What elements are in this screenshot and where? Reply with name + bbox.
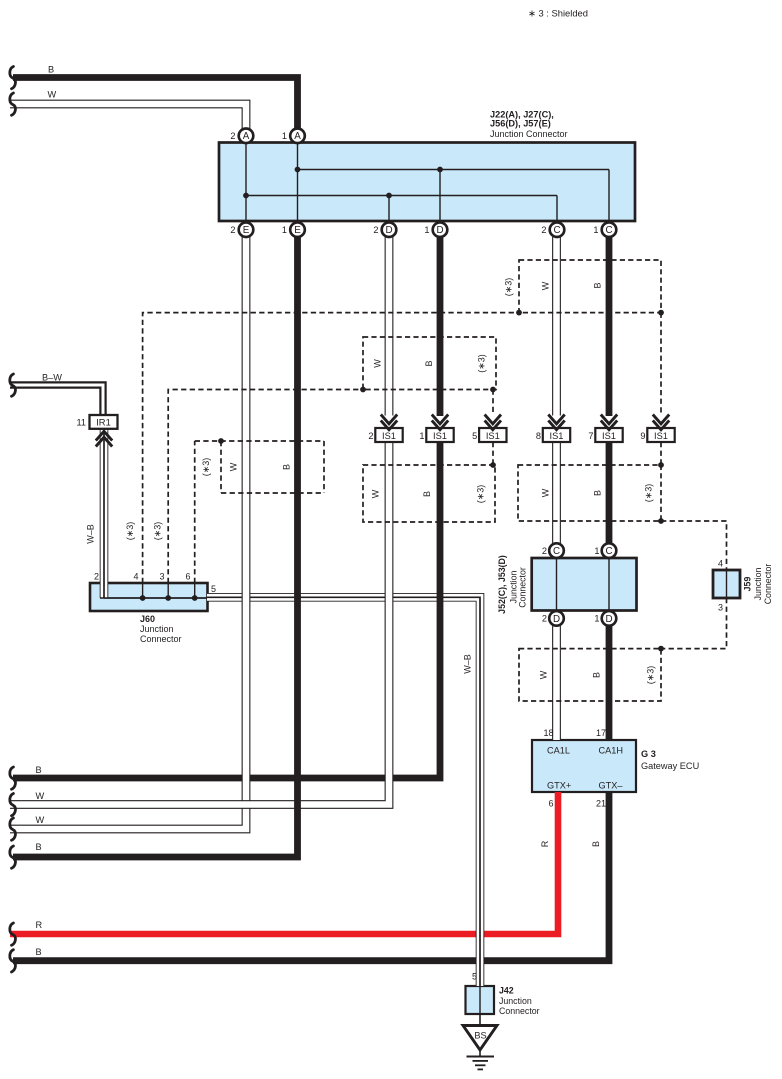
svg-text:Junction: Junction — [140, 624, 174, 634]
svg-text:(∗3): (∗3) — [201, 458, 211, 477]
svg-text:17: 17 — [596, 728, 606, 738]
svg-text:CA1L: CA1L — [547, 746, 570, 756]
svg-text:3: 3 — [159, 572, 164, 582]
svg-text:2: 2 — [542, 614, 547, 624]
svg-text:A: A — [294, 131, 301, 142]
svg-text:GTX–: GTX– — [599, 781, 624, 791]
svg-text:BS: BS — [474, 1031, 486, 1041]
svg-text:7: 7 — [588, 431, 593, 441]
svg-text:D: D — [605, 614, 612, 625]
svg-text:W: W — [541, 281, 551, 290]
svg-text:18: 18 — [543, 728, 553, 738]
svg-text:W: W — [371, 489, 381, 498]
svg-text:R: R — [36, 920, 43, 930]
svg-text:IS1: IS1 — [550, 431, 564, 441]
svg-text:(∗3): (∗3) — [646, 666, 656, 685]
svg-text:5: 5 — [472, 431, 477, 441]
svg-text:C: C — [553, 546, 560, 557]
svg-text:GTX+: GTX+ — [547, 781, 571, 791]
svg-text:E: E — [243, 225, 250, 236]
svg-text:Gateway ECU: Gateway ECU — [641, 761, 699, 771]
svg-text:3: 3 — [718, 603, 723, 613]
svg-text:C: C — [605, 225, 612, 236]
svg-text:W: W — [229, 462, 239, 471]
svg-text:(∗3): (∗3) — [476, 485, 486, 504]
svg-text:B: B — [591, 841, 601, 847]
svg-text:5: 5 — [211, 584, 216, 594]
svg-text:B: B — [593, 490, 603, 496]
svg-text:2: 2 — [541, 225, 546, 235]
svg-text:(∗3): (∗3) — [477, 354, 487, 373]
svg-text:W: W — [48, 89, 57, 99]
svg-text:(∗3): (∗3) — [153, 522, 163, 541]
svg-text:21: 21 — [596, 799, 606, 809]
svg-text:6: 6 — [185, 572, 190, 582]
svg-text:Junction: Junction — [499, 996, 532, 1006]
svg-text:W: W — [36, 815, 45, 825]
svg-text:Junction: Junction — [753, 568, 763, 601]
svg-text:2: 2 — [94, 572, 99, 582]
svg-text:1: 1 — [594, 614, 599, 624]
svg-text:E: E — [294, 225, 301, 236]
svg-text:(∗3): (∗3) — [644, 484, 654, 503]
svg-text:IR1: IR1 — [96, 416, 111, 427]
svg-text:9: 9 — [640, 431, 645, 441]
svg-text:B: B — [593, 282, 603, 288]
svg-text:J52(C), J53(D): J52(C), J53(D) — [497, 555, 507, 614]
svg-text:IS1: IS1 — [433, 431, 447, 441]
svg-text:1: 1 — [419, 431, 424, 441]
svg-text:R: R — [540, 840, 550, 847]
svg-text:CA1H: CA1H — [599, 746, 624, 756]
svg-text:J60: J60 — [140, 614, 155, 624]
svg-text:8: 8 — [536, 431, 541, 441]
svg-text:Connector: Connector — [140, 634, 182, 644]
svg-text:B: B — [48, 64, 54, 74]
svg-text:4: 4 — [718, 559, 723, 569]
svg-text:1: 1 — [424, 225, 429, 235]
svg-text:1: 1 — [593, 225, 598, 235]
svg-text:W: W — [541, 488, 551, 497]
svg-text:B: B — [36, 765, 42, 775]
svg-text:J59: J59 — [743, 577, 753, 592]
svg-text:Connector: Connector — [763, 564, 773, 605]
svg-text:B: B — [424, 360, 434, 366]
svg-text:2: 2 — [373, 225, 378, 235]
svg-text:2: 2 — [368, 431, 373, 441]
svg-text:IS1: IS1 — [382, 431, 396, 441]
svg-text:1: 1 — [282, 131, 287, 141]
svg-text:IS1: IS1 — [486, 431, 500, 441]
svg-text:6: 6 — [548, 799, 553, 809]
svg-text:Connector: Connector — [518, 567, 528, 608]
svg-text:J56(D), J57(E): J56(D), J57(E) — [490, 119, 551, 129]
svg-text:W–B: W–B — [86, 524, 96, 544]
svg-text:J42: J42 — [499, 986, 514, 996]
svg-text:(∗3): (∗3) — [125, 522, 135, 541]
svg-text:IS1: IS1 — [602, 431, 616, 441]
svg-text:Junction Connector: Junction Connector — [490, 129, 568, 139]
svg-text:B: B — [36, 842, 42, 852]
svg-text:W: W — [539, 670, 549, 679]
svg-text:W–B: W–B — [463, 654, 473, 674]
svg-text:G 3: G 3 — [641, 749, 656, 759]
svg-text:C: C — [553, 225, 560, 236]
svg-text:B: B — [36, 947, 42, 957]
svg-text:D: D — [553, 614, 560, 625]
svg-text:B: B — [422, 491, 432, 497]
svg-text:B: B — [592, 672, 602, 678]
svg-text:2: 2 — [230, 225, 235, 235]
svg-text:2: 2 — [230, 131, 235, 141]
svg-text:1: 1 — [594, 546, 599, 556]
svg-text:W: W — [373, 359, 383, 368]
svg-text:B: B — [282, 464, 292, 470]
svg-text:W: W — [36, 791, 45, 801]
svg-text:A: A — [243, 131, 250, 142]
svg-text:11: 11 — [76, 417, 86, 427]
svg-text:B–W: B–W — [42, 373, 62, 383]
svg-text:(∗3): (∗3) — [504, 278, 514, 297]
svg-text:IS1: IS1 — [654, 431, 668, 441]
svg-text:D: D — [385, 225, 392, 236]
svg-text:1: 1 — [282, 225, 287, 235]
svg-text:2: 2 — [542, 546, 547, 556]
svg-text:∗ 3 : Shielded: ∗ 3 : Shielded — [528, 8, 588, 19]
svg-text:C: C — [605, 546, 612, 557]
svg-text:4: 4 — [133, 572, 138, 582]
svg-text:5: 5 — [472, 972, 477, 982]
svg-text:Connector: Connector — [499, 1006, 540, 1016]
svg-text:D: D — [436, 225, 443, 236]
